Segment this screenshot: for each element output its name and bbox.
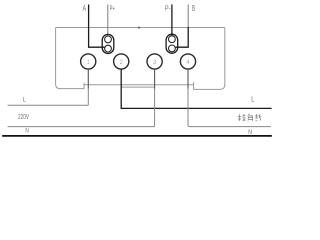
terminal 1 [81,54,96,69]
svg-text:P+: P+ [110,3,115,12]
voltage link U-left (stadium) [102,34,114,53]
wire terminal3 down [154,69,156,88]
link U-left bottom screw [105,45,112,52]
svg-text:N: N [25,129,28,135]
voltage link U-right (stadium) [166,34,178,53]
char 接 [238,114,242,121]
label 接负载 (to load) drawn as strokes [238,114,262,121]
svg-text:1: 1 [87,59,89,66]
svg-text:220V: 220V [18,114,29,121]
wire B lower vertical + into right link bottom terminal [175,27,188,47]
link U-right top screw [169,36,176,43]
svg-text:B: B [192,4,195,13]
terminal 3 [147,54,162,69]
svg-text:P-: P- [165,3,171,12]
link U-left top screw [105,36,112,43]
wire N supply rail [8,126,155,128]
link U-right bottom screw [169,45,176,52]
svg-text:4: 4 [187,59,190,66]
char 载 [255,114,261,121]
svg-text:3: 3 [153,59,156,66]
terminal 2 [114,54,129,69]
wire P- vertical [171,5,173,37]
smudge on case top edge [138,27,140,29]
wire terminal1 down [87,69,89,88]
terminal 4 [180,54,195,69]
wire P+ vertical [107,5,109,37]
bottom border line [2,135,272,137]
wire B top vertical (gray above case edge) [187,5,189,28]
wire L supply rail [8,104,89,106]
svg-text:L: L [23,98,27,104]
char 负 [248,114,253,121]
svg-text:A: A [83,3,87,13]
svg-text:L: L [251,96,254,103]
wire terminal2 down to load L [121,69,271,108]
wire terminal4 down to load N [187,69,189,88]
wire A top vertical + into left link bottom terminal [89,5,105,48]
meter case outline [56,28,225,90]
svg-text:2: 2 [120,59,123,66]
